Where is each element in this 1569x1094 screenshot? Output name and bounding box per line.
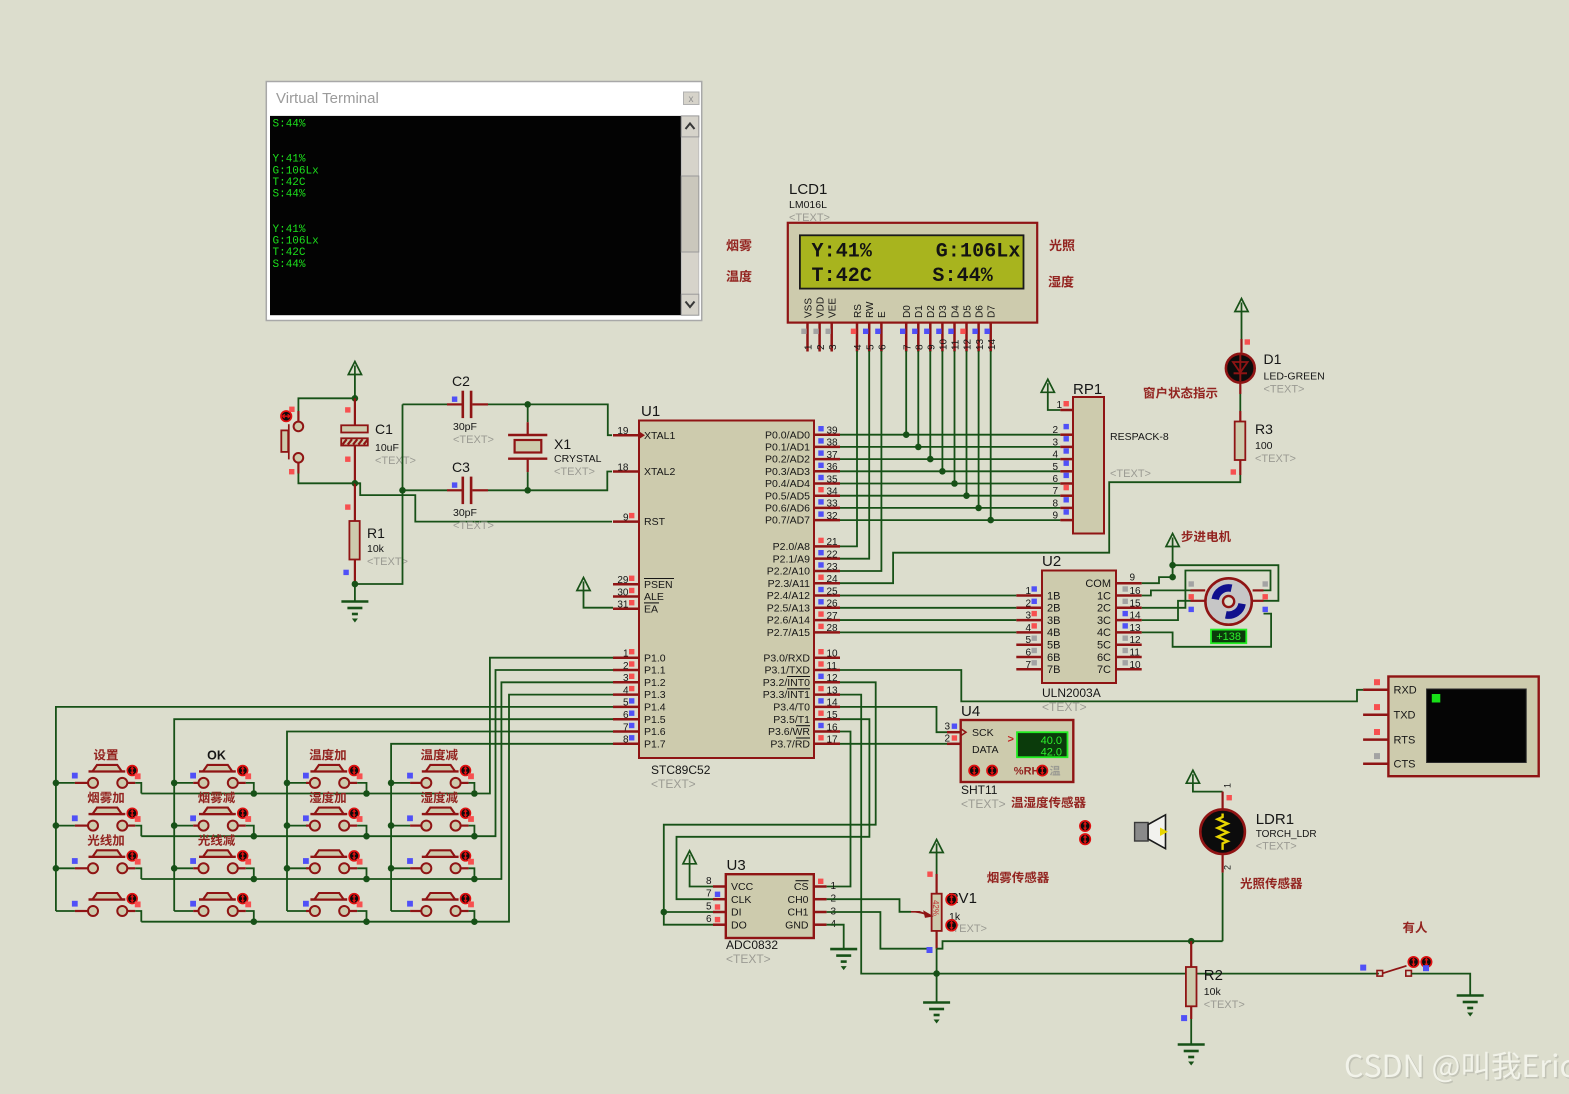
svg-text:<TEXT>: <TEXT> — [1110, 468, 1151, 480]
svg-text:<TEXT>: <TEXT> — [1204, 999, 1245, 1011]
wire LDR1 to R2 node — [1222, 873, 1224, 942]
mcu U1 pin 2 P1.1 — [613, 669, 639, 672]
svg-text:P2.4/A12: P2.4/A12 — [767, 590, 810, 602]
lcd pin 12 stub — [965, 323, 968, 352]
wire RST node jog — [355, 483, 612, 521]
keypad button row 1 col 2 OK — [174, 765, 254, 794]
svg-text:P2.0/A8: P2.0/A8 — [773, 541, 811, 553]
driver U2 pin 12 5C — [1116, 643, 1142, 646]
svg-text:DI: DI — [731, 907, 742, 919]
keypad button row 2 col 2 烟雾减 — [174, 808, 254, 837]
svg-text:SHT11: SHT11 — [961, 783, 998, 797]
svg-text:P2.5/A13: P2.5/A13 — [767, 602, 810, 614]
wire P3.6 to U3 CS — [827, 732, 851, 887]
svg-text:VDD: VDD — [815, 297, 826, 318]
wire cap ground rail — [355, 404, 403, 584]
svg-text:STC89C52: STC89C52 — [651, 763, 711, 777]
svg-text:RXD: RXD — [1394, 685, 1417, 697]
svg-text:LM016L: LM016L — [789, 199, 827, 211]
driver U2 pin 2 2B — [1016, 607, 1042, 610]
svg-text:42%: 42% — [931, 900, 940, 916]
svg-text:11: 11 — [951, 339, 962, 350]
wire RV1 bottom to R2 top — [937, 941, 1223, 949]
wire P0.5 to RP1 — [840, 495, 1060, 497]
crystal X1 — [508, 404, 547, 490]
wire DI branch — [664, 911, 713, 913]
button RESET actuator — [281, 411, 291, 421]
wire VCC to EA — [584, 591, 614, 608]
svg-text:38: 38 — [827, 438, 839, 449]
svg-text:37: 37 — [827, 450, 839, 461]
svg-text:P0.5/AD5: P0.5/AD5 — [765, 490, 810, 502]
svg-text:2: 2 — [816, 344, 827, 350]
state square LDR1 top — [1227, 795, 1232, 800]
state square button actuator — [289, 407, 294, 412]
svg-text:7: 7 — [1025, 660, 1031, 671]
svg-text:Y:41%: Y:41% — [812, 241, 873, 264]
driver U2 pin 16 1C — [1116, 594, 1142, 597]
svg-text:7: 7 — [902, 344, 913, 350]
wire VCC to LED — [1241, 312, 1243, 340]
lcd LCD1 screen — [800, 235, 1024, 288]
wire LCD D1 column — [917, 351, 919, 447]
svg-text:RTS: RTS — [1394, 734, 1416, 746]
capacitor C3 — [403, 477, 489, 505]
driver U2 body — [1042, 571, 1116, 684]
sensor U4 pin 3 SCK — [947, 731, 961, 734]
wire P1.6 keypad column 3 — [287, 732, 613, 912]
svg-text:U1: U1 — [641, 403, 660, 420]
svg-text:P1.5: P1.5 — [644, 714, 666, 726]
keypad button row 3 col 2 光线减 — [174, 850, 254, 879]
svg-text:31: 31 — [617, 600, 629, 611]
svg-text:G:106Lx: G:106Lx — [936, 241, 1021, 264]
svg-text:S:44%: S:44% — [273, 259, 306, 271]
keypad label 光线减 — [198, 834, 235, 846]
svg-text:P1.3: P1.3 — [644, 689, 666, 701]
keypad button row 4 col 1 (unlabeled) — [56, 893, 141, 922]
svg-text:TXD: TXD — [1394, 710, 1416, 722]
wire keypad row 4 bus to P1.3 — [141, 695, 613, 922]
label guangzhao light — [1049, 239, 1074, 251]
ldr LDR1 — [1200, 792, 1245, 873]
keypad button r2c3 actuator — [349, 808, 359, 818]
lcd text line1 — [812, 241, 1021, 264]
wire P1.7 keypad column 4 — [391, 744, 613, 911]
mcu U1 pin 19 XTAL1 — [613, 434, 639, 437]
svg-text:5: 5 — [1025, 635, 1031, 646]
wire keypad row 3 bus to P1.2 — [141, 682, 613, 879]
mcu U1 pin 26 P2.5/A13 — [814, 607, 840, 610]
terminal pin RXD — [1363, 689, 1388, 692]
svg-text:+138: +138 — [1216, 631, 1241, 643]
svg-text:10: 10 — [827, 649, 839, 660]
keypad label 设置 — [94, 749, 118, 761]
keypad button row 4 col 3 (unlabeled) — [287, 893, 367, 922]
node C3 ground — [399, 487, 406, 494]
wire LCD D3 column — [941, 351, 943, 471]
state square C2 — [452, 397, 457, 402]
svg-text:TORCH_LDR: TORCH_LDR — [1256, 829, 1317, 840]
svg-text:<TEXT>: <TEXT> — [1256, 841, 1297, 853]
svg-text:34: 34 — [827, 487, 839, 498]
svg-text:R3: R3 — [1255, 421, 1273, 437]
wire VCC to RP1 pin1 — [1048, 392, 1061, 410]
button RESET contacts — [281, 422, 303, 463]
wire U2 1C to motor left upper — [1142, 590, 1191, 595]
svg-text:S:44%: S:44% — [273, 119, 306, 131]
keypad button r1c1 state squares — [72, 773, 141, 780]
svg-text:4: 4 — [1025, 623, 1031, 634]
lcd pin 6 stub — [880, 323, 883, 352]
switch renti actuators — [1408, 957, 1431, 967]
keypad button row 3 col 3 (unlabeled) — [287, 850, 367, 879]
svg-text:7: 7 — [1052, 486, 1058, 497]
capacitor C1 labels — [375, 421, 416, 467]
resistor R3 — [1235, 411, 1246, 475]
svg-text:7B: 7B — [1047, 664, 1060, 676]
svg-text:26: 26 — [827, 599, 839, 610]
adc U3 pin 3 CH1 — [814, 911, 827, 914]
mcu U1 pin 17 P3.7/RD — [814, 743, 840, 746]
mcu U1 pin 3 P1.2 — [613, 681, 639, 684]
svg-text:<TEXT>: <TEXT> — [1255, 453, 1296, 465]
node stepper vcc 2 — [1169, 574, 1176, 581]
lcd pin 13 stub — [977, 323, 980, 352]
svg-text:2C: 2C — [1097, 603, 1111, 615]
ground R2 — [1178, 1043, 1205, 1046]
svg-text:5: 5 — [623, 698, 629, 709]
svg-text:LCD1: LCD1 — [789, 181, 827, 198]
keypad button r1c4 actuator — [461, 766, 471, 776]
mcu U1 pin 23 P2.2/A10 — [814, 570, 840, 573]
svg-text:4: 4 — [853, 344, 864, 350]
keypad button r4c4 actuator — [461, 894, 471, 904]
mcu U1 pin 29 PSEN — [613, 583, 639, 586]
terminal component body — [1388, 677, 1538, 777]
wire P0.2 to RP1 — [840, 458, 1060, 460]
svg-text:<TEXT>: <TEXT> — [1264, 384, 1305, 396]
wire VCC to node — [354, 375, 356, 399]
wire P0.4 to RP1 — [840, 483, 1060, 485]
keypad button r4c2 actuator — [238, 894, 248, 904]
svg-text:RW: RW — [865, 301, 876, 318]
keypad button row 3 col 4 (unlabeled) — [391, 850, 474, 879]
svg-text:U2: U2 — [1042, 553, 1061, 570]
svg-text:5C: 5C — [1097, 640, 1111, 652]
keypad button r1c2 state squares — [190, 773, 251, 780]
lcd LCD1 body — [788, 223, 1037, 323]
resistor R2 labels — [1204, 967, 1245, 1011]
keypad button row 4 col 2 (unlabeled) — [174, 893, 254, 922]
svg-text:1: 1 — [831, 881, 837, 892]
node crystal top — [524, 401, 531, 408]
svg-text:U4: U4 — [961, 703, 980, 720]
pot RV1 buttons — [946, 894, 957, 931]
svg-text:16: 16 — [1130, 586, 1142, 597]
svg-text:RESPACK-8: RESPACK-8 — [1110, 431, 1169, 443]
svg-text:<TEXT>: <TEXT> — [453, 434, 494, 446]
power flag VCC RP1 — [1041, 379, 1054, 392]
sensor U4 gray char — [1050, 766, 1060, 776]
wire U2 3C to motor left lower — [1142, 601, 1191, 620]
led D1 labels — [1264, 351, 1325, 396]
svg-text:<TEXT>: <TEXT> — [726, 952, 771, 966]
keypad button r3c2 actuator — [238, 851, 248, 861]
node bottom rail — [933, 970, 940, 977]
node R2 top — [1188, 938, 1195, 945]
svg-text:7: 7 — [623, 722, 629, 733]
svg-text:C2: C2 — [452, 373, 470, 389]
keypad button row 1 col 1 设置 — [56, 765, 141, 794]
svg-text:25: 25 — [827, 586, 839, 597]
svg-text:D7: D7 — [987, 305, 998, 318]
ldr LDR1 labels — [1256, 811, 1317, 853]
wire LCD D0 column — [905, 351, 907, 435]
lcd pin 5 stub — [868, 323, 871, 352]
svg-text:6C: 6C — [1097, 652, 1111, 664]
svg-text:T:42C: T:42C — [273, 247, 306, 259]
svg-text:2: 2 — [623, 661, 629, 672]
svg-text:8: 8 — [915, 344, 926, 350]
svg-text:1: 1 — [1223, 783, 1233, 788]
svg-text:30pF: 30pF — [453, 421, 477, 433]
svg-text:P2.2/A10: P2.2/A10 — [767, 566, 810, 578]
svg-text:D0: D0 — [902, 305, 913, 318]
respack RP1 pin 2 — [1060, 433, 1073, 436]
wire P3.5 to U3 CLK — [677, 719, 870, 899]
wire R1 node to ground — [354, 584, 356, 601]
svg-text:CLK: CLK — [731, 894, 751, 906]
svg-text:29: 29 — [617, 575, 629, 586]
terminal pin CTS — [1363, 762, 1388, 765]
svg-text:10k: 10k — [367, 543, 385, 555]
sensor U4 RH button — [1037, 766, 1047, 776]
keypad button r2c3 state squares — [303, 815, 363, 821]
adc U3 pin 8 VCC — [713, 885, 726, 888]
mcu U1 pin 14 P3.4/T0 — [814, 706, 840, 709]
driver U2 pin 6 6B — [1016, 656, 1042, 659]
mcu U1 pin 25 P2.4/A12 — [814, 594, 840, 597]
lcd pin 2 stub — [818, 323, 821, 352]
virtual terminal scrollbar — [681, 116, 699, 315]
mcu U1 pin 27 P2.6/A14 — [814, 619, 840, 622]
svg-text:C1: C1 — [375, 421, 393, 437]
svg-text:Virtual Terminal: Virtual Terminal — [276, 90, 379, 107]
svg-text:S:44%: S:44% — [273, 189, 306, 201]
svg-text:P0.1/AD1: P0.1/AD1 — [765, 442, 810, 454]
svg-text:9: 9 — [1052, 511, 1058, 522]
wire LCD D4 column — [954, 351, 956, 484]
resistor R1 — [349, 483, 359, 584]
svg-text:36: 36 — [827, 462, 839, 473]
terminal pin TXD — [1363, 713, 1388, 716]
lcd pin 14 stub — [989, 323, 992, 352]
svg-text:3: 3 — [828, 344, 839, 350]
power flag VCC D1 — [1235, 299, 1248, 312]
ground RV1 — [923, 1001, 950, 1004]
lcd pin 8 stub — [917, 323, 920, 352]
svg-text:D5: D5 — [962, 305, 973, 318]
wire P2.4 to U2 1B — [840, 595, 1016, 597]
svg-text:P2.7/A15: P2.7/A15 — [767, 627, 810, 639]
respack RP1 pin 4 — [1060, 458, 1073, 461]
wire keypad row 2 bus to P1.1 — [141, 670, 613, 836]
state square C3 — [452, 482, 457, 487]
keypad button r4c3 state squares — [303, 901, 363, 908]
svg-text:CH0: CH0 — [787, 894, 808, 906]
svg-text:9: 9 — [623, 512, 629, 523]
wire button bottom to RST node — [297, 463, 299, 474]
svg-text:23: 23 — [827, 562, 839, 573]
svg-text:P3.0/RXD: P3.0/RXD — [763, 652, 810, 664]
node RST — [352, 480, 359, 487]
svg-text:<TEXT>: <TEXT> — [961, 797, 1006, 811]
svg-text:P3.5/T1: P3.5/T1 — [773, 714, 810, 726]
svg-text:3: 3 — [1025, 611, 1031, 622]
label youren occupied — [1403, 921, 1427, 933]
adc U3 pin 7 CLK — [713, 898, 726, 901]
svg-text:EA: EA — [644, 603, 658, 615]
mcu U1 pin 6 P1.5 — [613, 718, 639, 721]
svg-text:D2: D2 — [926, 305, 937, 318]
wire U2 2C to motor right upper — [1142, 571, 1271, 608]
adc U3 body — [726, 874, 814, 938]
capacitor C1 — [341, 398, 368, 483]
wire P0.1 to RP1 — [840, 446, 1060, 448]
wire P0.6 to RP1 — [840, 507, 1060, 509]
keypad button r1c1 actuator — [127, 766, 137, 776]
svg-text:11: 11 — [1130, 648, 1141, 659]
svg-text:DO: DO — [731, 919, 747, 931]
svg-text:10k: 10k — [1204, 986, 1222, 998]
keypad button row 2 col 4 湿度减 — [391, 808, 474, 837]
svg-text:T:42C: T:42C — [273, 177, 306, 189]
svg-text:D6: D6 — [974, 305, 985, 318]
power flag VCC reset — [348, 362, 361, 375]
lcd pin 11 stub — [953, 323, 956, 352]
wire P3.2 to U3 DI DO — [664, 682, 876, 924]
lcd pin 9 stub — [929, 323, 932, 352]
terminal component screen — [1427, 689, 1527, 763]
svg-text:14: 14 — [827, 698, 839, 709]
mcu U1 pin 33 P0.6/AD6 — [814, 507, 840, 510]
wire LCD D5 column — [966, 351, 968, 496]
capacitor C2 — [403, 391, 489, 418]
adc U3 pin 1 CS — [814, 885, 827, 888]
svg-text:1C: 1C — [1097, 590, 1111, 602]
label yanwu sensor — [987, 871, 1049, 883]
state square R1 bottom — [343, 570, 348, 575]
svg-text:P1.4: P1.4 — [644, 702, 666, 714]
respack RP1 pin 8 — [1060, 507, 1073, 510]
keypad button r3c1 actuator — [127, 851, 137, 861]
virtual terminal window frame — [266, 82, 701, 321]
power flag VCC U3 — [683, 851, 696, 864]
svg-text:P0.3/AD3: P0.3/AD3 — [765, 466, 810, 478]
svg-text:S:44%: S:44% — [932, 265, 993, 288]
svg-text:5: 5 — [865, 344, 876, 350]
wire P2.5 to U2 2B — [840, 607, 1016, 609]
wire P3.4 to SCK — [840, 707, 947, 732]
svg-text:VSS: VSS — [803, 298, 814, 318]
svg-text:27: 27 — [827, 611, 839, 622]
mcu U1 pin 18 XTAL2 — [613, 470, 639, 473]
mcu U1 pin 15 P3.5/T1 — [814, 718, 840, 721]
svg-text:42.0: 42.0 — [1041, 747, 1062, 759]
svg-text:LED-GREEN: LED-GREEN — [1264, 371, 1325, 383]
svg-text:X1: X1 — [554, 436, 571, 452]
keypad button r2c1 state squares — [72, 815, 141, 821]
capacitor C2 labels — [452, 373, 494, 446]
svg-text:OK: OK — [207, 748, 226, 762]
stepper position display +138 — [1211, 630, 1246, 644]
respack RP1 labels — [1073, 381, 1169, 480]
keypad button r4c4 state squares — [407, 901, 474, 908]
wire C2 to XTAL1 — [488, 404, 612, 435]
mcu U1 pin 7 P1.6 — [613, 730, 639, 733]
keypad button r3c3 actuator — [349, 851, 359, 861]
label bujin stepper motor — [1182, 530, 1231, 542]
adc U3 pin 6 DO — [713, 923, 726, 926]
svg-text:3: 3 — [1052, 437, 1058, 448]
svg-text:14: 14 — [987, 338, 998, 350]
lcd pin 7 stub — [905, 323, 908, 352]
wire P2.6 to U2 3B — [840, 619, 1016, 621]
power flag VCC stepper — [1166, 534, 1179, 547]
respack RP1 pin 9 — [1060, 519, 1073, 522]
svg-text:6: 6 — [1052, 474, 1058, 485]
node crystal bottom — [524, 487, 531, 494]
state square R3 bottom — [1231, 469, 1236, 474]
svg-text:32: 32 — [827, 511, 839, 522]
svg-text:4B: 4B — [1047, 627, 1060, 639]
sensor U4 display — [1008, 732, 1068, 758]
wire LCD RS to P2.0 — [840, 351, 857, 546]
svg-text:10uF: 10uF — [375, 442, 399, 454]
wire LCD D7 column — [990, 351, 992, 520]
svg-text:9: 9 — [1130, 573, 1136, 584]
mcu U1 pin 24 P2.3/A11 — [814, 582, 840, 585]
svg-text:VCC: VCC — [731, 881, 754, 893]
ground reset circuit — [341, 600, 368, 603]
respack RP1 pin 6 — [1060, 482, 1073, 485]
state square R1 top — [345, 504, 350, 509]
svg-text:P1.1: P1.1 — [644, 665, 666, 677]
keypad button r2c4 state squares — [407, 815, 474, 821]
svg-text:10: 10 — [1130, 660, 1142, 671]
svg-text:4: 4 — [623, 685, 629, 696]
wire P3.7 to DATA — [840, 743, 947, 745]
pot RV1 labels — [946, 890, 987, 935]
svg-text:D4: D4 — [950, 305, 961, 318]
svg-text:30: 30 — [617, 587, 629, 598]
keypad button r1c2 actuator — [238, 766, 248, 776]
keypad button r3c4 state squares — [407, 858, 474, 865]
node stepper vcc 1 — [1169, 562, 1176, 569]
node DI DO — [661, 909, 668, 916]
wire P0.7 to RP1 — [840, 519, 1060, 521]
svg-text:22: 22 — [827, 549, 839, 560]
svg-text:<TEXT>: <TEXT> — [554, 466, 595, 478]
svg-text:P3.4/T0: P3.4/T0 — [773, 702, 810, 714]
svg-text:ULN2003A: ULN2003A — [1042, 686, 1101, 700]
svg-text:17: 17 — [827, 735, 839, 746]
svg-text:G:106Lx: G:106Lx — [273, 165, 320, 177]
keypad button r3c4 actuator — [461, 851, 471, 861]
svg-text:21: 21 — [827, 537, 839, 548]
wire C3 to XTAL2 — [488, 472, 612, 491]
